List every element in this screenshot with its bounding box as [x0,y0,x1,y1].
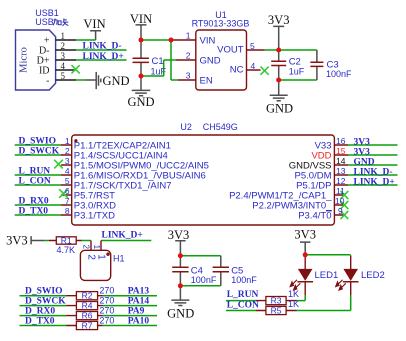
svg-text:3: 3 [61,51,66,61]
svg-text:PA13: PA13 [128,287,150,297]
svg-text:RT9013-33GB: RT9013-33GB [192,19,250,29]
svg-text:LINK_D-: LINK_D- [83,42,122,52]
svg-text:3V3: 3V3 [294,228,316,242]
svg-text:1: 1 [92,245,101,250]
svg-text:270: 270 [99,306,114,316]
svg-text:LINK_D+: LINK_D+ [354,177,395,187]
svg-text:13: 13 [336,166,346,176]
svg-text:LINK_D+: LINK_D+ [83,52,124,62]
svg-text:2: 2 [61,41,66,51]
svg-text:4.7K: 4.7K [56,245,75,255]
svg-text:11: 11 [336,186,345,196]
svg-text:5: 5 [65,176,70,186]
svg-text:VIN: VIN [83,17,105,31]
svg-text:-: - [46,75,49,86]
svg-text:1: 1 [186,30,191,40]
svg-text:P3.1/TXD: P3.1/TXD [74,210,115,221]
svg-text:D_RX0: D_RX0 [25,307,55,317]
svg-text:R7: R7 [82,320,93,330]
svg-text:3: 3 [186,70,191,80]
svg-text:15: 15 [336,146,346,156]
svg-text:4: 4 [65,166,70,176]
svg-text:LED1: LED1 [315,270,339,281]
svg-text:100nF: 100nF [191,275,217,285]
svg-text:EN: EN [200,75,213,86]
svg-text:12: 12 [336,176,346,186]
svg-text:NC: NC [230,65,244,76]
svg-text:D_SWIO: D_SWIO [25,287,62,297]
svg-text:2: 2 [65,146,70,156]
svg-text:270: 270 [99,316,114,326]
svg-text:VOUT: VOUT [217,44,244,55]
svg-text:P3.4/T0: P3.4/T0 [298,210,331,221]
svg-text:U2: U2 [180,122,192,132]
svg-text:2: 2 [186,50,191,60]
svg-text:270: 270 [99,296,114,306]
svg-text:LED2: LED2 [361,270,385,281]
svg-text:D_SWCK: D_SWCK [19,147,60,157]
svg-text:D_TX0: D_TX0 [25,316,55,326]
svg-text:1K: 1K [288,289,299,299]
svg-text:PA14: PA14 [128,297,150,307]
svg-text:VIN: VIN [130,12,152,26]
svg-text:6: 6 [65,186,70,196]
svg-text:GND: GND [103,74,130,88]
svg-text:GND: GND [127,95,154,109]
svg-text:D_SWIO: D_SWIO [19,137,56,147]
svg-text:D_SWCK: D_SWCK [25,297,66,307]
svg-text:LINK_D+: LINK_D+ [102,230,143,240]
svg-text:14: 14 [336,156,346,166]
svg-text:R6: R6 [82,311,93,321]
svg-text:VIN: VIN [200,35,216,46]
svg-text:3V3: 3V3 [168,228,190,242]
svg-text:7: 7 [65,196,70,206]
svg-text:3V3: 3V3 [354,137,371,147]
svg-text:USB: USB [35,17,54,27]
svg-text:1uF: 1uF [289,67,305,77]
svg-text:D_RX0: D_RX0 [19,197,49,207]
svg-text:3V3: 3V3 [354,147,371,157]
svg-text:1: 1 [96,254,107,260]
svg-text:D_TX0: D_TX0 [19,207,49,217]
svg-text:GND: GND [200,55,221,66]
svg-text:L_RUN: L_RUN [227,290,259,300]
svg-text:Micro: Micro [18,47,29,73]
svg-text:1: 1 [61,31,66,41]
svg-text:2: 2 [86,254,97,260]
svg-text:L_CON: L_CON [19,177,51,187]
svg-text:LINK_D-: LINK_D- [354,167,393,177]
svg-text:100nF: 100nF [326,69,352,79]
svg-text:1K: 1K [288,299,299,309]
svg-text:H1: H1 [113,253,125,263]
svg-text:GND: GND [354,157,375,167]
svg-text:GND: GND [266,102,293,116]
svg-text:L_CON: L_CON [227,301,259,311]
svg-text:GND: GND [167,307,194,321]
svg-text:5: 5 [61,71,66,81]
svg-text:3: 3 [65,156,70,166]
svg-text:R3: R3 [271,296,282,306]
svg-text:C1: C1 [152,56,164,67]
svg-text:PA9: PA9 [128,307,145,317]
svg-text:4: 4 [61,61,66,71]
svg-text:PA10: PA10 [128,316,150,326]
svg-text:R2: R2 [82,291,93,301]
svg-text:R1: R1 [61,235,72,245]
svg-text:2: 2 [82,245,91,250]
svg-text:9: 9 [338,206,343,216]
svg-text:R4: R4 [82,301,93,311]
svg-text:1: 1 [65,136,70,146]
svg-text:10: 10 [335,196,345,206]
svg-text:3V3: 3V3 [6,233,28,247]
svg-text:16: 16 [336,136,346,146]
svg-text:L_RUN: L_RUN [19,167,51,177]
svg-text:100nF: 100nF [231,275,257,285]
svg-text:3V3: 3V3 [268,13,290,27]
svg-text:CH549G: CH549G [203,122,238,132]
svg-text:R5: R5 [271,305,282,315]
svg-text:270: 270 [99,286,114,296]
svg-text:8: 8 [65,206,70,216]
